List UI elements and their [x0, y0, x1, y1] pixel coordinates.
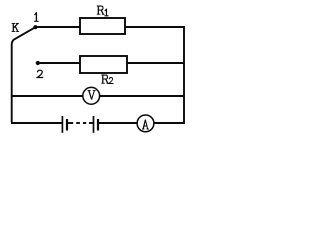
- battery stub wire: [68, 122, 73, 124]
- battery cell 2 long plate: [93, 116, 95, 133]
- node 1: [33, 25, 37, 29]
- wire: node 2 to R2: [38, 62, 80, 64]
- wire: voltmeter to right vertical: [100, 95, 185, 97]
- node 2: [36, 61, 40, 65]
- voltmeter V: [83, 87, 100, 104]
- wire: R2 to right vertical: [127, 62, 184, 64]
- battery dash 1: [76, 122, 80, 124]
- battery cell 2 short plate: [97, 119, 99, 131]
- resistor R2: [80, 56, 127, 73]
- battery cell 1 long plate: [61, 116, 63, 133]
- wire: right vertical: [183, 26, 185, 124]
- wire: left vertical to voltmeter: [11, 95, 83, 97]
- battery dash 2: [83, 122, 86, 124]
- label R2: [102, 75, 113, 84]
- ammeter A: [137, 115, 154, 132]
- label K: [12, 23, 19, 31]
- label R1: [97, 6, 108, 16]
- wire: battery to ammeter: [99, 122, 138, 124]
- label 2: [37, 70, 42, 77]
- wire: bottom-left to battery: [11, 122, 62, 124]
- switch K blade and left wire: [12, 27, 36, 122]
- battery lead wire: [89, 122, 93, 124]
- wire: node 1 to R1: [35, 26, 80, 28]
- battery cell 1 short plate: [66, 119, 68, 131]
- label 1: [35, 13, 38, 21]
- wire: ammeter to bottom-right corner: [154, 122, 184, 124]
- resistor R1: [80, 18, 125, 34]
- wire: R1 to top-right corner: [125, 26, 184, 28]
